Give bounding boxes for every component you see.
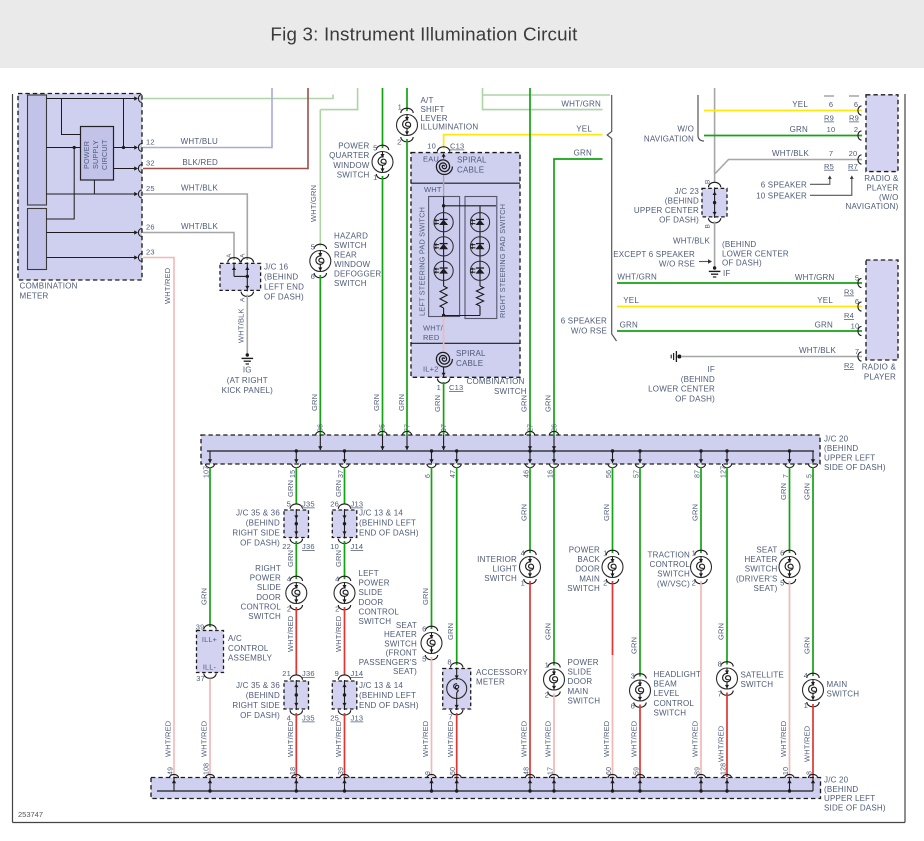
svg-text:25: 25 — [146, 184, 155, 193]
svg-text:WHT/RED: WHT/RED — [520, 720, 529, 757]
svg-text:OF DASH): OF DASH) — [675, 394, 715, 403]
interior light switch — [524, 550, 536, 555]
svg-text:GRN: GRN — [544, 395, 553, 412]
wire GRN to radio2 — [617, 330, 862, 332]
svg-text:DOOR: DOOR — [359, 598, 384, 607]
svg-text:37: 37 — [196, 674, 205, 683]
wire WHT/BLK to IF ground — [714, 222, 716, 269]
svg-text:LEVEL: LEVEL — [654, 689, 680, 698]
svg-text:COMBINATION: COMBINATION — [467, 377, 525, 386]
svg-text:IF: IF — [723, 269, 731, 278]
svg-text:(BEHIND: (BEHIND — [665, 197, 699, 206]
svg-text:3: 3 — [631, 672, 635, 681]
svg-text:23: 23 — [146, 248, 155, 257]
svg-text:IF: IF — [707, 365, 715, 374]
svg-text:NAVIGATION): NAVIGATION) — [845, 202, 898, 211]
svg-text:DOOR: DOOR — [256, 593, 281, 602]
svg-text:W/O: W/O — [677, 125, 694, 134]
svg-text:WHT/RED: WHT/RED — [779, 720, 788, 757]
svg-text:POWER: POWER — [568, 658, 599, 667]
svg-text:SHIFT: SHIFT — [421, 105, 445, 114]
svg-text:LEFT END: LEFT END — [264, 283, 304, 292]
svg-text:OF DASH): OF DASH) — [264, 293, 304, 302]
svg-text:1: 1 — [804, 701, 808, 710]
svg-text:END OF DASH): END OF DASH) — [359, 529, 419, 538]
svg-text:10 SPEAKER: 10 SPEAKER — [756, 191, 807, 200]
svg-text:SWITCH: SWITCH — [568, 696, 601, 705]
svg-text:GRN: GRN — [520, 504, 529, 521]
svg-text:PLAYER: PLAYER — [864, 373, 896, 382]
junction J/C 23 — [702, 188, 727, 217]
svg-text:B: B — [705, 224, 712, 229]
wire WHT/BLU — [143, 147, 272, 149]
svg-text:RIGHT STEERING PAD SWITCH: RIGHT STEERING PAD SWITCH — [498, 204, 507, 318]
svg-text:GRN: GRN — [334, 480, 343, 497]
wire GRN — [529, 467, 531, 553]
svg-text:RED: RED — [423, 333, 440, 342]
svg-text:GRN: GRN — [433, 395, 442, 412]
svg-text:A/T: A/T — [421, 96, 434, 105]
svg-text:J14: J14 — [351, 669, 364, 678]
wire WHT/GRN right segment — [482, 88, 484, 110]
wire GRN from combination switch — [443, 382, 445, 435]
svg-text:R9: R9 — [849, 114, 859, 123]
left power slide door control switch — [338, 576, 350, 581]
svg-text:27: 27 — [528, 424, 535, 432]
svg-text:10: 10 — [783, 767, 790, 775]
svg-text:CABLE: CABLE — [457, 166, 484, 175]
svg-text:J/C 16: J/C 16 — [264, 263, 289, 272]
svg-text:UPPER LEFT: UPPER LEFT — [824, 454, 875, 463]
svg-text:J35: J35 — [302, 714, 315, 723]
power quarter window switch — [382, 88, 384, 148]
svg-text:CONTROL: CONTROL — [649, 560, 690, 569]
title bar — [0, 0, 924, 68]
svg-text:W/O RSE: W/O RSE — [659, 260, 695, 269]
svg-text:POWER: POWER — [82, 141, 91, 169]
svg-text:7: 7 — [718, 690, 722, 699]
svg-text:LEFT: LEFT — [359, 569, 379, 578]
svg-text:WHT/RED: WHT/RED — [286, 720, 295, 757]
svg-text:60: 60 — [606, 767, 613, 775]
svg-text:22: 22 — [282, 542, 291, 551]
svg-text:10: 10 — [427, 142, 436, 151]
svg-text:SPIRAL: SPIRAL — [457, 156, 487, 165]
meter internal wires — [47, 98, 134, 100]
svg-text:WHT/RED: WHT/RED — [200, 720, 209, 757]
wire GRN — [812, 467, 814, 676]
svg-text:CONTROL: CONTROL — [359, 607, 400, 616]
svg-text:RIGHT: RIGHT — [255, 564, 281, 573]
seat heater switch drivers seat — [783, 550, 795, 555]
svg-text:10: 10 — [330, 542, 339, 551]
combination meter — [18, 94, 142, 281]
svg-text:POWER: POWER — [359, 579, 390, 588]
svg-text:8: 8 — [718, 660, 722, 669]
svg-text:WHT/GRN: WHT/GRN — [561, 99, 601, 108]
svg-text:J/C 23: J/C 23 — [675, 187, 700, 196]
svg-text:PLAYER: PLAYER — [866, 183, 898, 192]
A/T shift lever illumination — [406, 88, 408, 111]
steering pad internal wires — [443, 197, 445, 287]
svg-text:POWER: POWER — [338, 142, 369, 151]
power slide door main switch — [548, 663, 560, 668]
svg-text:6: 6 — [631, 702, 635, 711]
svg-text:21: 21 — [282, 669, 291, 678]
junction J/C 35 & 36 lower — [284, 681, 309, 709]
svg-text:32: 32 — [146, 159, 155, 168]
wire YEL to radio — [704, 110, 862, 112]
svg-text:GRN: GRN — [803, 637, 812, 654]
svg-text:YEL: YEL — [623, 296, 639, 305]
svg-text:6 SPEAKER: 6 SPEAKER — [561, 317, 607, 326]
svg-text:253747: 253747 — [18, 810, 43, 819]
svg-text:CABLE: CABLE — [456, 359, 483, 368]
svg-text:SWITCH: SWITCH — [359, 617, 392, 626]
svg-text:1: 1 — [398, 103, 402, 112]
left steering pad switch — [429, 197, 460, 317]
svg-text:J13: J13 — [351, 714, 364, 723]
svg-text:KICK PANEL): KICK PANEL) — [222, 386, 274, 395]
wire WHT/RED pin23 — [143, 258, 174, 778]
svg-text:RADIO &: RADIO & — [864, 174, 899, 183]
main switch — [807, 673, 819, 678]
junction J/C 35 & 36 upper — [284, 510, 309, 538]
svg-text:POWER: POWER — [250, 574, 281, 583]
svg-text:ACCESSORY: ACCESSORY — [476, 668, 528, 677]
svg-text:UPPER CENTER: UPPER CENTER — [634, 206, 699, 215]
svg-text:Fig 3: Instrument Illumination: Fig 3: Instrument Illumination Circuit — [270, 24, 578, 45]
svg-text:J/C 20: J/C 20 — [824, 776, 849, 785]
wire WHT/BLK pin25 — [143, 194, 247, 260]
page frame — [12, 94, 14, 823]
svg-text:SLIDE: SLIDE — [568, 668, 592, 677]
accessory meter — [443, 669, 471, 710]
LEDs — [434, 213, 453, 232]
svg-text:7: 7 — [448, 713, 452, 722]
svg-text:PASSENGER'S: PASSENGER'S — [359, 658, 417, 667]
svg-text:GRN: GRN — [446, 623, 455, 640]
svg-text:POWER: POWER — [569, 546, 600, 555]
svg-text:WHT/GRN: WHT/GRN — [617, 273, 657, 282]
svg-text:GRN: GRN — [310, 394, 319, 411]
svg-text:77: 77 — [405, 424, 412, 432]
svg-text:J14: J14 — [351, 542, 364, 551]
svg-text:WHT/RED: WHT/RED — [717, 725, 726, 762]
svg-text:NAVIGATION: NAVIGATION — [644, 135, 694, 144]
svg-text:GRN: GRN — [602, 504, 611, 521]
svg-text:10: 10 — [827, 125, 836, 134]
svg-text:R4: R4 — [844, 311, 854, 320]
svg-text:ILLUMINATION: ILLUMINATION — [421, 123, 479, 132]
svg-text:6: 6 — [780, 549, 784, 558]
svg-text:J/C 13 & 14: J/C 13 & 14 — [359, 681, 403, 690]
svg-text:GRN: GRN — [372, 394, 381, 411]
svg-text:LIGHT: LIGHT — [492, 565, 517, 574]
svg-text:J13: J13 — [351, 500, 364, 509]
A/C control assembly — [197, 631, 224, 673]
svg-text:CONTROL: CONTROL — [240, 602, 281, 611]
svg-text:MAIN: MAIN — [579, 574, 600, 583]
svg-text:J/C 35 & 36: J/C 35 & 36 — [236, 681, 280, 690]
svg-text:DEFOGGER: DEFOGGER — [334, 270, 381, 279]
svg-text:2: 2 — [692, 579, 696, 588]
svg-text:(DRIVER'S: (DRIVER'S — [736, 574, 778, 583]
svg-text:SWITCH: SWITCH — [654, 708, 687, 717]
svg-text:SWITCH: SWITCH — [657, 570, 690, 579]
svg-text:J/C 13 & 14: J/C 13 & 14 — [359, 509, 403, 518]
svg-text:R3: R3 — [844, 288, 854, 297]
seat heater switch front passenger seat — [425, 626, 437, 631]
svg-text:A: A — [226, 253, 233, 258]
svg-text:5: 5 — [373, 144, 377, 153]
wire GRN — [726, 467, 728, 665]
svg-text:METER: METER — [476, 678, 505, 687]
svg-text:SEAT): SEAT) — [393, 667, 417, 676]
svg-text:METER: METER — [20, 292, 49, 301]
svg-text:97: 97 — [441, 424, 448, 432]
svg-text:DOOR: DOOR — [568, 677, 593, 686]
hazard switch rear window defogger switch — [314, 244, 326, 249]
svg-text:18: 18 — [290, 767, 297, 775]
wire BLK/RED — [143, 168, 308, 170]
svg-text:1: 1 — [521, 579, 525, 588]
svg-text:J/C 20: J/C 20 — [824, 435, 849, 444]
wire gray vertical to J/C23 — [714, 88, 716, 182]
svg-text:BEAM: BEAM — [654, 680, 678, 689]
svg-text:GRN: GRN — [421, 588, 430, 605]
svg-text:WHT/BLK: WHT/BLK — [181, 222, 218, 231]
svg-text:UPPER LEFT: UPPER LEFT — [824, 794, 875, 803]
wire GRN — [789, 467, 791, 553]
wire YEL to radio2 — [617, 306, 862, 308]
svg-text:(BEHIND LEFT: (BEHIND LEFT — [359, 691, 416, 700]
svg-text:SWITCH: SWITCH — [745, 565, 778, 574]
svg-text:1: 1 — [437, 383, 441, 392]
svg-text:ASSEMBLY: ASSEMBLY — [228, 654, 273, 663]
svg-text:J/C 35 & 36: J/C 35 & 36 — [236, 509, 280, 518]
svg-text:WHT/RED: WHT/RED — [421, 720, 430, 757]
svg-text:2: 2 — [335, 605, 339, 614]
svg-text:6: 6 — [829, 100, 833, 109]
svg-text:GRN: GRN — [544, 623, 553, 640]
svg-text:C13: C13 — [450, 142, 464, 151]
svg-text:6: 6 — [422, 625, 426, 634]
radio & player 2 — [866, 260, 898, 360]
junction J/C 20 upper bus — [201, 435, 820, 464]
svg-text:SLIDE: SLIDE — [359, 588, 383, 597]
svg-text:QUARTER: QUARTER — [329, 151, 369, 160]
wire WHT/GRN jog to hazard — [357, 88, 359, 110]
svg-text:WHT/BLK: WHT/BLK — [181, 184, 218, 193]
wire WHT/RED from A/C — [209, 679, 211, 778]
svg-text:8: 8 — [447, 658, 451, 667]
ground IG — [246, 353, 249, 356]
svg-text:17: 17 — [548, 767, 555, 775]
svg-text:RIGHT SIDE: RIGHT SIDE — [232, 701, 280, 710]
svg-text:(FRONT: (FRONT — [386, 649, 417, 658]
svg-text:CIRCUIT: CIRCUIT — [100, 139, 109, 170]
svg-text:BLK/RED: BLK/RED — [182, 158, 218, 167]
svg-text:J35: J35 — [302, 500, 315, 509]
svg-text:SWITCH: SWITCH — [337, 171, 370, 180]
svg-text:SWITCH: SWITCH — [484, 574, 517, 583]
wire GRN — [295, 467, 297, 504]
power supply circuit — [81, 127, 114, 181]
svg-text:5: 5 — [422, 655, 426, 664]
satellite switch — [721, 662, 733, 667]
svg-text:5: 5 — [780, 579, 784, 588]
svg-text:9: 9 — [425, 771, 432, 775]
svg-text:2: 2 — [854, 125, 858, 134]
svg-text:WHT/RED: WHT/RED — [630, 720, 639, 757]
svg-text:W/O RSE: W/O RSE — [571, 327, 607, 336]
svg-text:4: 4 — [804, 671, 808, 680]
svg-text:WHT/GRN: WHT/GRN — [309, 185, 318, 222]
wire WHT/BLK to radio — [728, 159, 862, 161]
svg-text:6: 6 — [311, 272, 315, 281]
svg-text:4: 4 — [521, 549, 525, 558]
wire GRN — [553, 467, 555, 666]
radio & player (w/o navigation) — [866, 95, 898, 172]
svg-text:WHT/BLU: WHT/BLU — [181, 137, 218, 146]
svg-text:WHT/GRN: WHT/GRN — [795, 273, 835, 282]
svg-text:J36: J36 — [302, 669, 315, 678]
svg-text:TRACTION: TRACTION — [648, 551, 691, 560]
svg-text:GRN: GRN — [286, 550, 295, 567]
svg-text:RIGHT SIDE: RIGHT SIDE — [232, 529, 280, 538]
svg-text:5: 5 — [311, 243, 315, 252]
wire GRN — [431, 467, 433, 629]
svg-text:GRN: GRN — [574, 149, 592, 158]
svg-text:1: 1 — [603, 549, 607, 558]
svg-text:WHT/BLK: WHT/BLK — [772, 149, 809, 158]
svg-text:EXCEPT 6 SPEAKER: EXCEPT 6 SPEAKER — [613, 250, 695, 259]
svg-text:CONTROL: CONTROL — [228, 644, 269, 653]
svg-text:B: B — [705, 179, 712, 184]
wire WHT/BLK to ground — [246, 295, 248, 355]
svg-text:6: 6 — [854, 100, 858, 109]
svg-text:39: 39 — [338, 767, 345, 775]
svg-text:(BEHIND: (BEHIND — [681, 375, 715, 384]
svg-text:J36: J36 — [302, 542, 315, 551]
wire GRN — [639, 467, 641, 677]
wire GRN to radio — [704, 135, 862, 137]
svg-text:WHT/RED: WHT/RED — [544, 720, 553, 757]
combination switch box — [411, 153, 520, 378]
svg-text:WHT/RED: WHT/RED — [164, 720, 173, 757]
svg-text:WHT/: WHT/ — [423, 324, 444, 333]
svg-text:GRN: GRN — [286, 480, 295, 497]
svg-text:50: 50 — [450, 767, 457, 775]
svg-text:(W/O: (W/O — [879, 193, 898, 202]
wire WHT/GRN pale from meter — [143, 98, 333, 100]
svg-text:SWITCH: SWITCH — [384, 639, 417, 648]
junction J/C 20 lower bus — [151, 778, 821, 799]
wire GRN long vertical — [529, 88, 531, 435]
svg-text:26: 26 — [146, 223, 155, 232]
svg-text:OF DASH): OF DASH) — [240, 711, 280, 720]
svg-text:2: 2 — [603, 579, 607, 588]
svg-text:SIDE OF DASH): SIDE OF DASH) — [824, 463, 886, 472]
svg-text:49: 49 — [168, 767, 175, 775]
svg-text:25: 25 — [380, 424, 387, 432]
svg-text:12: 12 — [146, 138, 155, 147]
svg-text:GRN: GRN — [790, 125, 808, 134]
svg-text:WHT/RED: WHT/RED — [803, 725, 812, 762]
svg-text:LEFT STEERING PAD SWITCH: LEFT STEERING PAD SWITCH — [418, 207, 427, 316]
wire GRN left row — [554, 159, 603, 435]
option bracket left — [607, 95, 616, 341]
svg-text:128: 128 — [721, 763, 728, 775]
svg-text:(BEHIND: (BEHIND — [722, 240, 756, 249]
svg-text:COMBINATION: COMBINATION — [20, 282, 78, 291]
svg-text:MAIN: MAIN — [827, 680, 848, 689]
svg-text:A: A — [239, 253, 246, 258]
svg-text:1: 1 — [545, 661, 549, 670]
svg-text:(BEHIND: (BEHIND — [246, 691, 280, 700]
wire GRN — [612, 467, 614, 553]
svg-text:ILL-: ILL- — [203, 663, 217, 672]
svg-text:EAU: EAU — [423, 155, 439, 164]
svg-text:REAR: REAR — [334, 251, 357, 260]
svg-text:A/C: A/C — [228, 634, 242, 643]
svg-text:OF DASH): OF DASH) — [240, 539, 280, 548]
svg-text:SUPPLY: SUPPLY — [91, 140, 100, 169]
svg-text:HEADLIGHT: HEADLIGHT — [654, 670, 702, 679]
svg-text:R5: R5 — [824, 162, 834, 171]
svg-text:(BEHIND LEFT: (BEHIND LEFT — [359, 519, 416, 528]
junction J/C 16 — [220, 263, 261, 290]
svg-text:SWITCH: SWITCH — [494, 387, 527, 396]
svg-text:GRN: GRN — [520, 395, 529, 412]
svg-text:(W/VSC): (W/VSC) — [657, 579, 690, 588]
svg-text:GRN: GRN — [200, 588, 209, 605]
svg-text:(BEHIND: (BEHIND — [824, 785, 858, 794]
svg-text:WHT/BLK: WHT/BLK — [673, 237, 710, 246]
svg-text:C13: C13 — [449, 383, 463, 392]
svg-text:WINDOW: WINDOW — [333, 161, 370, 170]
svg-text:YEL: YEL — [817, 296, 833, 305]
svg-text:8: 8 — [807, 771, 814, 775]
svg-text:SWITCH: SWITCH — [567, 584, 600, 593]
svg-text:1: 1 — [373, 173, 377, 182]
right power slide door control switch — [290, 576, 302, 581]
svg-text:36: 36 — [318, 424, 325, 432]
svg-text:89: 89 — [695, 767, 702, 775]
svg-text:26: 26 — [330, 500, 339, 509]
svg-text:GRN: GRN — [334, 550, 343, 567]
svg-text:GRN: GRN — [779, 483, 788, 500]
power back door main switch — [606, 550, 618, 555]
svg-text:(AT RIGHT: (AT RIGHT — [227, 376, 268, 385]
svg-text:39: 39 — [196, 623, 205, 632]
svg-text:GRN: GRN — [620, 321, 638, 330]
svg-text:LOWER CENTER: LOWER CENTER — [648, 385, 715, 394]
junction J/C 13 & 14 upper — [332, 510, 357, 538]
svg-text:OF DASH): OF DASH) — [659, 216, 699, 225]
svg-text:2: 2 — [545, 691, 549, 700]
svg-text:WINDOW: WINDOW — [334, 260, 371, 269]
svg-text:6 SPEAKER: 6 SPEAKER — [761, 180, 807, 189]
wire WHT/BLK pin26 — [143, 233, 234, 261]
svg-text:WHT/RED: WHT/RED — [691, 720, 700, 757]
svg-text:2: 2 — [287, 605, 291, 614]
svg-text:INTERIOR: INTERIOR — [477, 555, 517, 564]
svg-text:HEATER: HEATER — [744, 555, 777, 564]
svg-text:WHT/RED: WHT/RED — [334, 615, 343, 652]
svg-text:SPIRAL: SPIRAL — [456, 349, 486, 358]
